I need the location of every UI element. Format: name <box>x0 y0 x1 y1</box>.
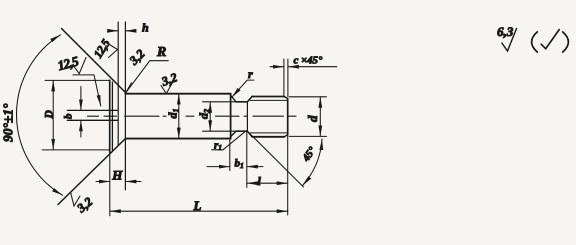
head top face <box>109 80 111 152</box>
svg-text:d1: d1 <box>166 109 181 119</box>
dimension b1 extension left <box>229 140 231 171</box>
thread lead-in chamfer top <box>247 97 252 102</box>
dimension b lower arrow <box>80 120 82 137</box>
slot lower line <box>67 119 117 121</box>
dimension 45-deg construction line <box>247 131 303 187</box>
neck bottom edge <box>236 130 248 132</box>
dimension D extension top <box>45 79 110 81</box>
thread root top <box>250 99 288 101</box>
dimension b upper arrow <box>80 87 82 111</box>
cone-cylinder junction line (also h and H extension) <box>124 22 126 190</box>
roughness 12,5 slot check <box>74 58 86 74</box>
roughness 12,5 slot shelf <box>73 74 94 76</box>
svg-text:c ×45°: c ×45° <box>294 55 323 67</box>
dimension c x45 arrow left <box>270 66 284 68</box>
slot bottom line (also h extension) <box>117 22 119 145</box>
dimension c x45 line right <box>288 66 337 68</box>
thread lead-in chamfer bottom <box>247 131 252 137</box>
surface mark 6,3 check <box>502 29 517 52</box>
roughness 3,2 shank check <box>161 84 172 94</box>
step chamfer bottom <box>231 131 236 136</box>
thread crest bottom <box>252 136 284 138</box>
leader r1 <box>212 131 246 150</box>
dimension h line left <box>110 30 118 32</box>
svg-text:3,2: 3,2 <box>126 47 148 69</box>
end chamfer top <box>284 97 287 99</box>
step chamfer top <box>231 96 236 102</box>
dimension d2 extension top <box>203 101 236 103</box>
dimension l line <box>247 182 288 184</box>
head top face second line <box>111 82 113 150</box>
roughness 12,5 face check <box>103 41 118 58</box>
dimension D extension bottom <box>42 149 110 151</box>
dimension c x45 extension left <box>283 59 285 96</box>
dimension d1 line <box>178 94 180 139</box>
shank end face <box>230 94 232 139</box>
roughness 12,5 slot leader arrow <box>94 75 101 106</box>
svg-text:d: d <box>305 115 320 122</box>
dimension d2 extension bottom <box>203 130 236 132</box>
leader r <box>232 80 254 97</box>
neck top edge <box>236 101 248 103</box>
dimension d2 line <box>209 102 211 131</box>
dimension d extension top <box>289 96 326 98</box>
thread root bottom <box>250 132 288 134</box>
svg-text:r: r <box>248 67 253 81</box>
surface mark parens close <box>563 32 569 52</box>
dimension L extension right <box>287 135 289 215</box>
svg-text:R: R <box>156 45 166 60</box>
svg-text:b1: b1 <box>235 158 244 171</box>
svg-text:3,2: 3,2 <box>74 195 96 216</box>
dimension h line right <box>125 30 134 32</box>
slot upper line <box>67 109 117 111</box>
thread start boundary line <box>246 102 248 131</box>
dimension b1 arrow left <box>207 166 230 168</box>
thread end face <box>287 98 289 134</box>
dimension D line <box>52 80 54 149</box>
roughness 3,2 head cone check <box>126 83 132 93</box>
dimension d extension bottom <box>289 135 326 137</box>
thread crest top <box>252 96 284 98</box>
dimension H arrow left <box>96 181 110 183</box>
dimension d line <box>319 97 321 137</box>
svg-text:l: l <box>258 174 262 188</box>
cone top line (with 90-deg construction extension) <box>62 29 126 93</box>
svg-text:b: b <box>63 113 75 119</box>
dimension b1 extension right (also l extension) <box>246 132 248 188</box>
shank top edge <box>125 93 230 95</box>
cone bottom line (with 90-deg construction extension) <box>58 139 125 205</box>
svg-text:H: H <box>111 168 123 183</box>
dimension L line <box>110 210 288 212</box>
svg-text:h: h <box>142 21 149 35</box>
dimension b1 arrow right <box>247 166 263 168</box>
surface mark parens open <box>532 32 538 52</box>
dimension 90-deg arc <box>17 35 63 195</box>
dimension L extension left <box>109 152 111 216</box>
svg-text:90°±1°: 90°±1° <box>1 103 16 142</box>
svg-text:6,3: 6,3 <box>497 24 514 39</box>
roughness 3,2 bottom check <box>71 192 81 206</box>
shank bottom edge <box>125 138 230 140</box>
dimension c x45 extension right <box>287 59 289 97</box>
leader R <box>126 61 168 93</box>
svg-text:d2: d2 <box>197 109 212 119</box>
svg-text:D: D <box>43 110 55 120</box>
svg-text:L: L <box>193 198 202 213</box>
surface mark paren check <box>541 30 559 49</box>
dimension H arrow right <box>125 181 140 183</box>
dimension 45-deg arc <box>303 139 323 186</box>
svg-text:45°: 45° <box>300 145 318 165</box>
end chamfer bottom <box>284 135 287 137</box>
centerline (screw axis) <box>88 115 297 117</box>
